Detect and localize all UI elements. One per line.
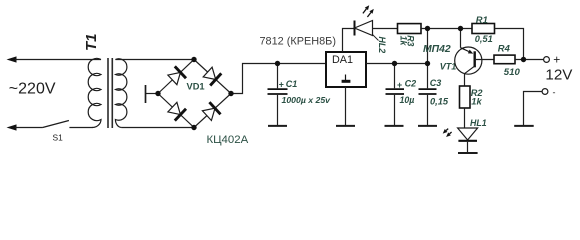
wire: secondary top to bridge AC node [115,59,194,61]
wire: HL2 to R3 [373,28,398,30]
wire: branch stub down to DA1 top [343,29,355,53]
junction node C3 [425,61,430,66]
svg-text:DA1: DA1 [332,54,353,66]
wire: R4 to plus terminal [515,59,544,61]
svg-text:МП42: МП42 [423,44,451,55]
wire: bridge plus to DC rail [231,64,326,94]
svg-text:HL1: HL1 [470,118,487,128]
switch S1 [43,121,93,128]
transformer T1 core [108,58,112,128]
junction node emitter [458,26,463,31]
terminal bar: bridge minus [145,85,147,103]
svg-text:0,51: 0,51 [475,34,493,44]
wire: R1 to output node [495,29,524,60]
svg-text:1000µ x 25v: 1000µ x 25v [282,95,332,105]
svg-text:VT1: VT1 [440,62,457,72]
svg-text:C2: C2 [405,79,417,89]
svg-text:10µ: 10µ [400,95,415,105]
svg-text:+: + [553,52,560,66]
junction bridge minus [155,91,160,96]
LED HL2 emission arrows [363,5,374,17]
wire: AC top lead with arrow [7,56,102,62]
svg-text:R1: R1 [476,14,488,25]
svg-text:T1: T1 [83,33,100,51]
LED HL2 [355,21,373,36]
terminal bar: minus common [514,125,534,127]
wire: emitter lead from top branch [460,29,462,48]
svg-text:~220V: ~220V [9,81,56,98]
junction node output [521,57,526,62]
svg-text:7812 (КРЕН8Б): 7812 (КРЕН8Б) [260,36,336,48]
diode VD1.4 (bottom-right arm) [202,102,220,120]
capacitor C2 [386,64,405,126]
DA1 internal ground pin symbol [342,75,351,83]
junction node C2 [392,61,397,66]
regulator DA1 box [326,52,366,87]
resistor R2 [460,86,471,108]
junction bridge AC bottom [191,125,196,130]
capacitor C1 [268,64,288,126]
svg-text:1k: 1k [471,96,482,106]
bridge rectifier VD1 frame [158,60,231,128]
svg-text:HL2: HL2 [377,37,387,54]
terminal: minus output [542,89,548,95]
svg-text:C1: C1 [286,79,298,89]
terminal: plus output [544,57,550,63]
diode VD1.3 (left-bottom arm) [168,102,186,120]
label HL2 with leader [373,35,387,54]
svg-text:12V: 12V [545,66,573,83]
svg-text:КЦ402А: КЦ402А [207,134,249,146]
LED HL1 [458,128,478,152]
diode VD1.1 (left-top arm) [168,66,186,84]
svg-text:+: + [397,80,402,90]
junction bridge plus [228,91,233,96]
label +C1 [279,79,298,90]
terminal bar: C1 common [268,125,287,127]
svg-text:510: 510 [504,67,521,78]
wire: rail up to LED branch [427,29,429,64]
svg-text:VD1: VD1 [187,82,205,92]
LED HL1 emission arrows [443,129,452,137]
terminal bar: DA1 common [336,125,355,127]
wire: collector lead down [464,74,466,86]
wire: DA1 ground pin down [345,87,347,125]
junction bridge AC top [191,57,196,62]
wire: minus terminal to common [524,92,543,126]
transformer T1 secondary winding [115,59,127,128]
wire: base lead to R4 [476,59,494,61]
junction node LED branch [425,26,430,31]
svg-text:S1: S1 [53,133,64,143]
diode VD1.2 (top-right arm) [203,67,221,85]
svg-text:1k: 1k [399,36,409,47]
capacitor C3 [419,64,437,126]
wire: DA1 output rail [366,63,428,65]
terminal bar: C3 common [418,125,437,127]
wire: bridge minus stub [146,93,159,95]
resistor R3 [398,24,422,34]
resistor R4 [494,55,515,64]
svg-text:0,15: 0,15 [430,96,449,106]
transformer T1 primary winding [88,58,101,127]
svg-text:-: - [553,87,556,97]
terminal bar: HL1 common [458,152,478,154]
label +C2 [397,79,416,90]
transistor VT1 [455,47,482,74]
wire: R2 to HL1 [464,108,466,128]
svg-text:R4: R4 [498,42,511,53]
terminal bar: C2 common [385,125,404,127]
resistor R1 [472,24,495,34]
junction node C1 [275,61,280,66]
wire: R3 to R1 [421,28,472,30]
wire: secondary bottom to bridge AC node [122,127,194,129]
svg-text:C3: C3 [430,78,442,88]
svg-text:+: + [279,79,284,89]
wire: AC bottom lead with arrow [7,124,43,130]
